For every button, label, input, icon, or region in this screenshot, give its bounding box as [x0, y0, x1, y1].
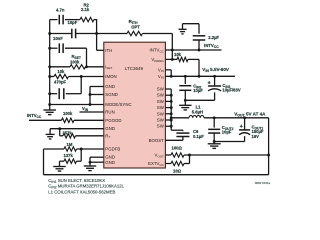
- wire 2.2uF to ground: [183, 23, 200, 25]
- wire row C right: [65, 47, 87, 49]
- svg-text:10pF: 10pF: [68, 20, 78, 25]
- node rail row B: [48, 32, 51, 35]
- resistor 100ohm: [165, 154, 171, 156]
- node VIN-10k: [198, 75, 201, 78]
- resistor RITH OPT: [127, 31, 143, 35]
- svg-text:2.2µF: 2.2µF: [208, 35, 219, 40]
- wire SW stub1: [165, 88, 171, 90]
- resistor 137k: [64, 159, 77, 163]
- node INTVCC-RITH: [171, 49, 174, 52]
- wire C6 bottom to BOOST: [182, 137, 184, 141]
- ground GND row: [49, 129, 51, 135]
- wire SW stub4: [165, 107, 171, 109]
- wire row A mid: [65, 19, 80, 21]
- svg-text:RUN: RUN: [105, 110, 114, 115]
- capacitor 2.2uF: [198, 24, 200, 34]
- wire row C: [50, 47, 58, 49]
- svg-text:+: +: [240, 124, 243, 130]
- resistor 10ohm: [165, 163, 171, 165]
- svg-text:137k: 137k: [64, 153, 74, 158]
- svg-text:SW: SW: [157, 99, 165, 104]
- svg-text:SW: SW: [157, 111, 165, 116]
- capacitor 10pF: [71, 29, 73, 39]
- wire GND stub2: [90, 161, 104, 163]
- wire row B: [50, 33, 72, 35]
- svg-text:1M: 1M: [67, 142, 73, 147]
- wire PGDFB row: [77, 148, 104, 150]
- wire PGDFB down: [80, 149, 82, 161]
- capacitor CIN2 10uF: [184, 76, 186, 84]
- node VOUT-COUT2: [213, 116, 216, 119]
- wire GND stub: [90, 86, 104, 88]
- wire VIN pin1 stub: [165, 69, 171, 71]
- svg-text:100k: 100k: [70, 59, 80, 64]
- ground bottom GND: [84, 165, 97, 167]
- node VIN-pin1: [170, 75, 173, 78]
- svg-text:2.1k: 2.1k: [81, 7, 90, 12]
- wire SW stub7: [165, 125, 171, 127]
- svg-text:PGOOD: PGOOD: [105, 118, 121, 123]
- node INTVCC-cap: [198, 49, 201, 52]
- wire CIN bottom: [185, 99, 214, 101]
- node SGND: [89, 93, 92, 96]
- svg-text:SW: SW: [157, 87, 165, 92]
- wire GND vertical: [89, 157, 91, 166]
- svg-text:10µF/63V: 10µF/63V: [222, 88, 240, 93]
- wire RUN row: [80, 111, 104, 113]
- svg-text:ITH: ITH: [105, 48, 112, 53]
- node rail MODE/SYNC: [48, 103, 51, 106]
- svg-text:5.6µH: 5.6µH: [192, 110, 203, 115]
- node VIN-CIN1: [213, 75, 216, 78]
- svg-text:357k: 357k: [63, 131, 73, 136]
- resistor 10k IMON: [50, 76, 54, 78]
- wire RT row left: [60, 135, 63, 137]
- wire SW stub5: [165, 113, 171, 115]
- wire IMON row: [69, 76, 104, 78]
- wire 357k vertical: [59, 129, 61, 136]
- svg-text:+: +: [208, 81, 211, 87]
- wire INTVCC row: [165, 49, 221, 51]
- wire row A corner: [94, 19, 97, 21]
- svg-text:0.1µF: 0.1µF: [193, 134, 204, 139]
- capacitor 10nF: [58, 43, 60, 53]
- wire row B right: [76, 33, 99, 35]
- wire 470pF up: [80, 77, 82, 94]
- node rail IMON: [48, 75, 51, 78]
- node SW6: [170, 119, 173, 122]
- svg-text:10Ω: 10Ω: [173, 168, 182, 173]
- svg-text:LTC3649: LTC3649: [125, 66, 144, 71]
- wire SW stub3: [165, 100, 171, 102]
- wire ITH vertical: [96, 19, 98, 50]
- inductor L1 5.6uH: [189, 116, 204, 118]
- svg-text:L1 COILCRAFT XAL5050-562MEB: L1 COILCRAFT XAL5050-562MEB: [48, 189, 115, 194]
- resistor 10k VINREG: [177, 57, 188, 61]
- node SW2: [170, 94, 173, 97]
- wire RT row right: [76, 135, 104, 137]
- svg-text:100Ω: 100Ω: [172, 145, 183, 150]
- svg-text:3649 TA01a: 3649 TA01a: [255, 181, 271, 185]
- IC U1 LTC3649 body: [104, 42, 166, 168]
- wire COUT bottom: [214, 141, 244, 143]
- svg-text:OPT: OPT: [131, 24, 140, 29]
- svg-text:BOOST: BOOST: [149, 138, 165, 143]
- resistor 1M: [64, 147, 77, 151]
- svg-text:100k: 100k: [63, 111, 73, 116]
- node bottom GND: [89, 161, 92, 164]
- wire row A: [50, 19, 58, 21]
- wire SW rail: [170, 89, 172, 130]
- resistor 100k PGOOD: [62, 118, 75, 122]
- svg-text:MODE/SYNC: MODE/SYNC: [105, 102, 131, 107]
- wire PGOOD row: [29, 119, 62, 121]
- wire VOUT rail down: [268, 118, 270, 175]
- wire 10ohm up: [184, 163, 190, 165]
- wire SW stub2: [165, 94, 171, 96]
- node SW4: [170, 106, 173, 109]
- ground 137k: [59, 161, 61, 166]
- wire 10k to VIN: [188, 58, 199, 60]
- wire GND row: [50, 128, 104, 130]
- wire 137k left: [60, 160, 65, 162]
- node SW5: [170, 112, 173, 115]
- wire RSET row: [50, 66, 70, 68]
- wire SW stub6: [165, 119, 171, 121]
- node PGDFB junction: [80, 148, 83, 151]
- wire ITH stub: [97, 49, 104, 51]
- wire VOUT rail: [204, 117, 269, 119]
- svg-text:SW: SW: [157, 118, 165, 123]
- svg-text:SW: SW: [157, 105, 165, 110]
- svg-text:10µF: 10µF: [193, 88, 203, 93]
- svg-text:10µF: 10µF: [222, 129, 232, 134]
- svg-text:10k: 10k: [57, 69, 65, 74]
- svg-text:10k: 10k: [174, 52, 182, 57]
- wire VOUT sense row: [184, 154, 269, 156]
- ground top-right: [182, 24, 184, 30]
- wire 1M left: [44, 148, 65, 150]
- resistor 357k: [63, 134, 76, 138]
- node ISET junction: [85, 65, 88, 68]
- svg-text:GND: GND: [105, 126, 115, 131]
- node L1 takeoff: [170, 116, 173, 119]
- svg-text:GND: GND: [105, 84, 115, 89]
- svg-text:SW: SW: [157, 93, 165, 98]
- node rail 470pF: [48, 92, 51, 95]
- wire feedback bottom rail: [43, 149, 45, 175]
- wire MODE/SYNC row: [50, 104, 104, 106]
- node sense join: [188, 154, 191, 157]
- wire RITH to INTVCC: [143, 33, 173, 35]
- svg-text:10nF: 10nF: [53, 36, 63, 41]
- node VOUT rail bottom: [267, 154, 270, 157]
- svg-text:150µF: 150µF: [252, 129, 264, 134]
- node rail RSET: [48, 65, 51, 68]
- node IMON junction: [80, 75, 83, 78]
- wire left ground rail: [49, 20, 51, 105]
- wire L1 left: [171, 117, 189, 119]
- svg-text:IMON: IMON: [105, 74, 116, 79]
- wire C6 top: [171, 129, 183, 131]
- node MODE join: [89, 103, 92, 106]
- wire GND stub1: [90, 156, 104, 158]
- wire PGOOD right: [74, 119, 104, 121]
- resistor R2 2.1k: [80, 17, 94, 21]
- node VINREG: [171, 58, 174, 61]
- svg-text:PGDFB: PGDFB: [105, 147, 120, 152]
- wire VINREG row: [165, 58, 177, 60]
- node CIN gnd: [184, 99, 187, 102]
- node comp junction: [95, 32, 98, 35]
- capacitor CIN1 10uF/63V: [214, 76, 216, 86]
- wire VIN rail: [165, 75, 235, 77]
- node VIN-CIN2: [184, 75, 187, 78]
- wire 137k right: [77, 160, 82, 162]
- wire GND-SGND-MODE vertical: [89, 87, 91, 105]
- node SW3: [170, 100, 173, 103]
- capacitor COUT1 150uF: [244, 118, 246, 130]
- ground COUT: [213, 142, 215, 144]
- resistor RSET 100k: [70, 65, 86, 69]
- node 357k junction: [58, 127, 61, 130]
- node VOUT-COUT1: [243, 116, 246, 119]
- svg-text:SGND: SGND: [105, 92, 118, 97]
- capacitor 4.7n: [58, 15, 60, 25]
- svg-text:GND: GND: [105, 160, 115, 165]
- capacitor COUT2 10uF: [213, 118, 215, 128]
- svg-text:4.7n: 4.7n: [56, 8, 65, 13]
- wire SGND stub: [90, 94, 104, 96]
- capacitor C6 0.1uF: [176, 132, 189, 134]
- wire INTVCC-VINREG vertical: [171, 50, 173, 59]
- wire 470pF right: [66, 93, 81, 95]
- svg-text:470pF: 470pF: [54, 80, 67, 85]
- svg-text:SW: SW: [157, 124, 165, 129]
- node rail row C: [48, 47, 51, 50]
- svg-text:16V: 16V: [252, 134, 260, 139]
- wire RSET to pin: [86, 66, 104, 68]
- node COUT gnd: [213, 140, 216, 143]
- node SW7: [170, 125, 173, 128]
- wire RITH row: [97, 33, 127, 35]
- capacitor 470pF: [58, 88, 60, 99]
- wire 470pF row: [50, 93, 58, 95]
- ground main rail: [49, 105, 51, 111]
- ground CIN: [184, 100, 186, 105]
- wire row C down to ISET: [86, 48, 88, 67]
